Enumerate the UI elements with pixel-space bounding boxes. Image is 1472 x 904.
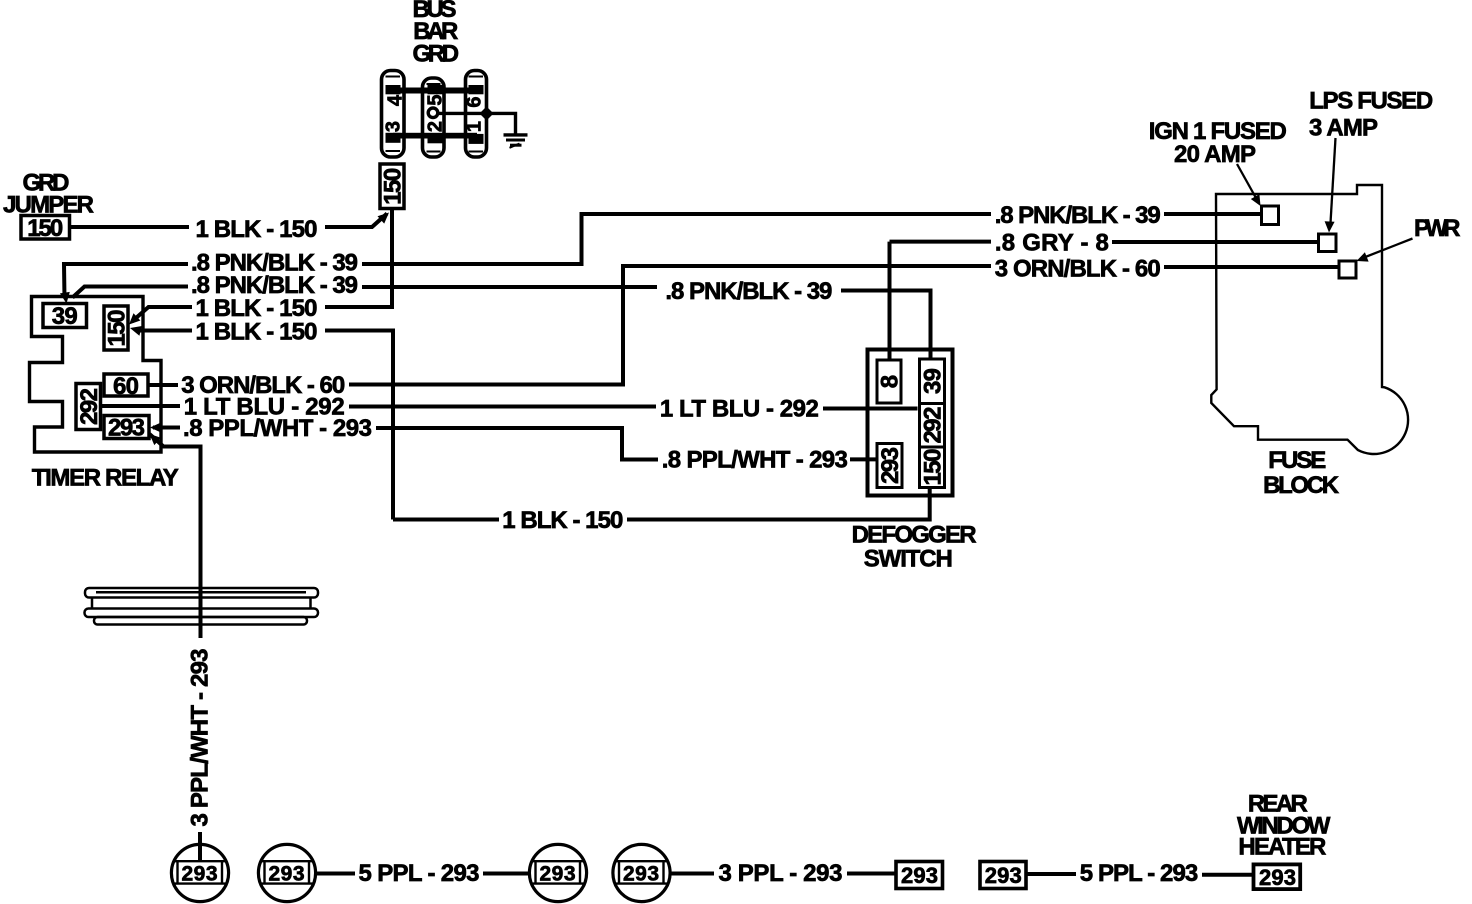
wire .8 PNK/BLK - 39 row3 right to middle label [362, 285, 657, 289]
svg-text:3 ORN/BLK - 60: 3 ORN/BLK - 60 [995, 256, 1161, 283]
svg-text:PWR: PWR [1414, 215, 1461, 242]
svg-text:.8 PNK/BLK - 39: .8 PNK/BLK - 39 [995, 202, 1161, 229]
fuse block outline [1211, 185, 1408, 454]
svg-text:3 AMP: 3 AMP [1309, 114, 1378, 141]
arrow into relay pin 39 [60, 292, 70, 304]
splice circle 293 no.4 [613, 844, 670, 901]
svg-text:1 BLK - 150: 1 BLK - 150 [196, 216, 318, 243]
svg-text:293: 293 [1259, 865, 1296, 890]
timer relay pin 293 box [104, 416, 149, 439]
fuse block terminal square LPS FUSED [1319, 234, 1337, 252]
svg-text:FUSE: FUSE [1268, 447, 1326, 474]
wire relay pin 293 down through grommet (to rear heater) [150, 434, 201, 638]
connector pin 2 cavity circle [428, 108, 438, 118]
defogger switch pin 293 box [877, 444, 902, 488]
svg-text:150: 150 [27, 215, 63, 242]
wire .8 GRY - 8 row from corner down to defogger pin 8 [888, 242, 892, 360]
svg-text:3 PPL/WHT - 293: 3 PPL/WHT - 293 [186, 649, 213, 827]
svg-text:BLOCK: BLOCK [1263, 472, 1340, 499]
svg-text:292: 292 [920, 407, 947, 444]
svg-text:293: 293 [540, 862, 576, 885]
wire .8 PNK/BLK - 39 row2 right to corner up to fuse row [362, 214, 991, 264]
wire 1 BLK - 150 row5 right down to bottom 150 row [325, 331, 393, 520]
arrow into relay pin 293 [150, 423, 161, 433]
fuse block terminal square PWR [1339, 261, 1356, 278]
svg-text:8: 8 [877, 375, 904, 388]
wire bus bar pin 2 to ground [438, 113, 516, 133]
svg-text:3 PPL - 293: 3 PPL - 293 [719, 860, 843, 887]
wire middle .8 PPL/WHT - 293 to defogger switch pin 293 [850, 457, 877, 461]
wire .8 PNK/BLK - 39 row2 left leg down to timer relay pin 39 [64, 264, 188, 298]
arrow into ring terminal 150 [378, 213, 390, 224]
svg-text:293: 293 [108, 415, 145, 442]
wire 3 ORN/BLK - 60 right up and across to PWR square [349, 266, 991, 385]
wire connector box 293 to label 5 PPL - 293 right [1027, 872, 1077, 876]
connector BUS BAR GRD body [382, 71, 487, 158]
svg-text:SWITCH: SWITCH [864, 545, 953, 572]
timer relay pin 60 box [104, 374, 148, 396]
wire .8 PPL/WHT - 293 across with jog down to middle label [376, 428, 658, 460]
wire 1 LT BLU - 292 across to middle label [349, 405, 656, 409]
arrow row5 into relay pin 150 [130, 326, 142, 336]
wire middle .8 PNK/BLK - 39 to defogger switch pin 39 [841, 291, 931, 360]
svg-text:150: 150 [104, 310, 131, 347]
connector 293 box (5 PPL run) [980, 862, 1026, 889]
wire vertical from ring terminal 150 down to row4 [390, 209, 394, 308]
svg-text:.8 GRY - 8: .8 GRY - 8 [995, 230, 1109, 257]
svg-text:.8 PPL/WHT - 293: .8 PPL/WHT - 293 [662, 446, 848, 473]
splice circle 293 no.3 [529, 844, 586, 901]
svg-text:5 PPL - 293: 5 PPL - 293 [1080, 860, 1199, 887]
wire relay pin 293 to label .8 PPL/WHT - 293 [153, 426, 180, 430]
wire .8 GRY - 8 label to fuse square LPS [1112, 240, 1319, 244]
wire splice 293 circle2 to label 5 PPL - 293 [316, 872, 355, 876]
timer relay pin 292 box [76, 384, 101, 430]
svg-text:3: 3 [382, 121, 404, 132]
wire 3 ORN/BLK - 60 right label to fuse square PWR [1164, 265, 1339, 269]
svg-text:150: 150 [380, 168, 407, 205]
wire bottom 1 BLK - 150 row right segment up into defogger switch pin 150 [627, 489, 930, 520]
svg-text:4: 4 [385, 94, 407, 106]
svg-text:HEATER: HEATER [1238, 834, 1326, 861]
wire .8 PNK/BLK - 39 row3 left diagonal to relay pin 39 [73, 287, 189, 298]
wire relay pin 292 to label 1 LT BLU - 292 [101, 404, 181, 408]
junction dot on bus bar ground wire [480, 107, 494, 121]
ring terminal 150 (below bus bar) [380, 164, 404, 209]
connector GRD JUMPER 150 box [21, 216, 70, 240]
wire bottom 1 BLK - 150 row to defogger switch pin 150 [393, 518, 499, 522]
wire .8 PNK/BLK - 39 right label to fuse square IGN [1164, 212, 1262, 216]
connector BUS BAR GRD webs and terminal contacts [386, 85, 484, 144]
svg-text:293: 293 [269, 862, 305, 885]
ground symbol [504, 135, 528, 148]
svg-text:20 AMP: 20 AMP [1174, 141, 1256, 168]
wire middle 1 LT BLU - 292 into defogger switch pin 292 [823, 407, 918, 411]
svg-text:1 BLK - 150: 1 BLK - 150 [502, 507, 623, 534]
grommet (firewall pass-through) [85, 588, 319, 625]
fuse block terminal square IGN 1 FUSED [1262, 206, 1279, 225]
wire .8 GRY - 8 row horizontal to label [890, 240, 992, 244]
arrow line PWR to square [1364, 239, 1413, 258]
arrow row4 into relay pin 150 [129, 313, 140, 324]
connector 293 box at rear window heater [1254, 864, 1301, 889]
svg-text:60: 60 [113, 373, 139, 400]
timer relay pin 39 box [43, 304, 87, 328]
svg-text:1 LT BLU - 292: 1 LT BLU - 292 [660, 395, 819, 422]
wire label 5 PPL - 293 to splice circle3 [483, 872, 531, 876]
connector 293 box (3 PPL run) [896, 862, 943, 889]
svg-text:DEFOGGER: DEFOGGER [852, 521, 977, 548]
svg-text:1: 1 [463, 121, 485, 132]
connector BUS BAR GRD cap lines [386, 77, 484, 152]
svg-text:293: 293 [877, 447, 904, 484]
defogger switch body [868, 350, 953, 496]
timer relay outline [30, 297, 162, 453]
wire GRD JUMPER 150 to label 1 BLK - 150 [70, 225, 190, 229]
svg-text:293: 293 [901, 863, 938, 888]
arrow line IGN 1 FUSED to square [1237, 164, 1256, 198]
svg-text:39: 39 [920, 368, 947, 394]
svg-text:5 PPL - 293: 5 PPL - 293 [359, 860, 480, 887]
svg-text:150: 150 [920, 449, 947, 486]
svg-text:1 BLK - 150: 1 BLK - 150 [196, 319, 318, 346]
wire 1 BLK - 150 row4 left to relay pin 150 (diagonal) [132, 307, 192, 322]
defogger switch pin 8 box [877, 360, 901, 403]
wire 1 BLK - 150 row5 left arrow to relay pin 150 [139, 329, 192, 333]
wire relay pin 60 to label 3 ORN/BLK - 60 [148, 383, 178, 387]
svg-text:293: 293 [623, 862, 659, 885]
arrow from heater wire into relay pin 293 [150, 434, 162, 445]
svg-text:293: 293 [182, 862, 218, 885]
defogger switch pin column 39/292/150 [920, 359, 945, 488]
wire 1 BLK - 150 row4 right to vertical from ring terminal [325, 305, 394, 309]
timer relay pin 150 box [104, 306, 128, 350]
wire label 5 PPL - 293 right to rear window heater 293 [1202, 873, 1254, 877]
svg-text:LPS FUSED: LPS FUSED [1309, 88, 1433, 115]
svg-text:TIMER RELAY: TIMER RELAY [32, 465, 179, 492]
svg-text:39: 39 [52, 303, 78, 330]
svg-text:.8 PPL/WHT - 293: .8 PPL/WHT - 293 [183, 415, 372, 442]
wire 1 BLK - 150 row1 to ring terminal 150 (diagonal) [325, 214, 387, 228]
arrow line LPS FUSED 3 AMP to square [1331, 138, 1336, 223]
wire splice circle4 to label 3 PPL - 293 [670, 872, 714, 876]
wire label 3 PPL - 293 to connector box 293 [847, 872, 896, 876]
svg-text:292: 292 [76, 388, 103, 425]
svg-text:GRD: GRD [413, 41, 460, 68]
svg-text:.8 PNK/BLK - 39: .8 PNK/BLK - 39 [665, 278, 832, 305]
svg-text:5: 5 [425, 94, 447, 105]
svg-text:293: 293 [985, 863, 1022, 888]
splice circle 293 no.1 [171, 844, 228, 901]
svg-text:6: 6 [463, 96, 485, 107]
splice circle 293 no.2 [258, 844, 315, 901]
svg-text:2: 2 [425, 121, 447, 132]
wire vertical 3 PPL/WHT - 293 into splice circle [198, 832, 202, 860]
